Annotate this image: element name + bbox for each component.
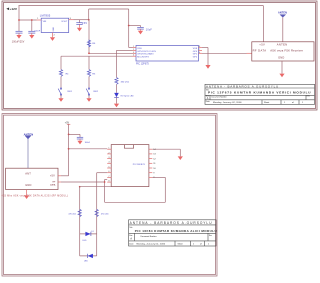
LED D4 (84, 254, 93, 263)
pin stubs PIC right (199, 47, 203, 49)
pin stubs IC2 right with numbers (149, 149, 157, 179)
capacitor C4 10uF (137, 26, 152, 32)
svg-text:SW1: SW1 (67, 91, 73, 93)
wire antenna (282, 17, 284, 41)
wire VDD to PIC (129, 47, 133, 49)
svg-text:PIC 12F675 KUMTAR KUMANDA VERI: PIC 12F675 KUMTAR KUMANDA VERICI MODULU (208, 91, 311, 95)
title block page 1 (205, 84, 315, 104)
svg-text:7: 7 (109, 176, 110, 178)
svg-text:330 ohm: 330 ohm (121, 81, 130, 83)
svg-text:RF DATA: RF DATA (253, 49, 267, 53)
svg-text:LED: LED (84, 261, 88, 263)
pin stubs PIC left (133, 47, 137, 49)
wire VSS2 to ground (152, 149, 180, 156)
wire antenna 2 (27, 139, 29, 168)
svg-text:Date:: Date: (206, 100, 211, 103)
page 1 inner border frame (4, 3, 316, 109)
resistor R3 330ohm (115, 78, 118, 85)
capacitor C3 output (76, 20, 82, 28)
node junction vdd (68, 148, 70, 150)
wire data stub to pin (105, 179, 108, 181)
wire bottom run (105, 201, 166, 203)
svg-text:PIC16F876: PIC16F876 (133, 164, 146, 166)
svg-text:VIN: VIN (43, 21, 47, 23)
svg-text:VOUT: VOUT (61, 21, 68, 23)
wire under IC bottom (80, 186, 112, 188)
ground under SW1 (58, 98, 63, 102)
resistor R1 rail left (68, 209, 81, 216)
svg-text:GND: GND (25, 183, 31, 187)
svg-text:GND: GND (53, 27, 55, 32)
ground under receiver 2 (24, 195, 29, 199)
svg-text:5: 5 (109, 166, 110, 168)
LED rail right (96, 173, 98, 256)
wire +5V output (74, 19, 89, 21)
svg-text:DATA: DATA (50, 183, 56, 186)
svg-text:PIC 12F675: PIC 12F675 (136, 63, 149, 66)
LED D3 (83, 231, 94, 242)
node junction decoupling (128, 25, 130, 27)
receiver module U5 (6, 168, 58, 189)
svg-text:100uF/25V: 100uF/25V (12, 42, 25, 44)
pin 3 regulator (69, 19, 74, 21)
wire data to receiver (202, 52, 247, 54)
ground under VSS (205, 65, 210, 69)
svg-text:LM7805: LM7805 (40, 14, 51, 18)
power symbol +5V page2 (65, 121, 71, 124)
node junction R6 (88, 52, 90, 54)
LED rail left (79, 187, 81, 256)
wire data riser (104, 180, 106, 203)
svg-text:PIC 16F84 KUMTAR KUMANDA ALICI: PIC 16F84 KUMTAR KUMANDA ALICI MODULU (135, 229, 217, 233)
svg-text:3: 3 (109, 157, 110, 159)
capacitor C2 100uF input (12, 31, 25, 43)
wire to decoupling cap (129, 25, 141, 27)
svg-text:VDD: VDD (137, 48, 142, 50)
svg-text:4: 4 (133, 55, 134, 57)
ground VSS2 (178, 156, 183, 160)
svg-text:Document Number: Document Number (212, 96, 227, 99)
svg-text:ANTENA - BARBAROS A.GURSOYLU: ANTENA - BARBAROS A.GURSOYLU (130, 221, 213, 225)
svg-text:GND: GND (278, 56, 284, 60)
ground under C2 (16, 35, 21, 39)
wire VDD to IC2 (69, 148, 108, 150)
svg-text:8: 8 (109, 181, 110, 183)
pin stub receiver +5V (58, 175, 61, 177)
wire regulator input (19, 19, 37, 21)
svg-text:1: 1 (37, 18, 38, 20)
svg-text:100nF: 100nF (85, 142, 91, 144)
antenna ANT1 (278, 11, 287, 17)
svg-text:Rev: Rev (307, 96, 310, 98)
svg-text:Monday, January 02, 2006: Monday, January 02, 2006 (213, 101, 242, 104)
svg-text:6: 6 (199, 52, 200, 54)
pin 2 regulator gnd (52, 33, 54, 38)
wire pin8 out (152, 176, 165, 178)
wire rail drop to receiver module (262, 6, 264, 42)
resistor R6 pullup (87, 20, 96, 54)
wire rail right top (97, 172, 108, 174)
wire PIC GP1 row (89, 52, 133, 54)
wire PIC GP2 row (61, 55, 133, 57)
svg-text:Size: Size (129, 235, 132, 237)
wire +5V top rail (89, 8, 129, 10)
svg-text:Date:: Date: (129, 242, 134, 245)
ground under regulator (50, 37, 55, 41)
regulator U1 LM7805 (40, 14, 69, 33)
pin stubs IC2 left (107, 149, 111, 182)
wire +5V riser (88, 9, 90, 20)
pin 1 regulator (37, 19, 42, 21)
wire rail drop to regulator input (18, 6, 20, 32)
svg-text:ANTEN: ANTEN (277, 43, 288, 47)
switch SW1 (60, 88, 61, 89)
svg-text:ANTENA - BARBAROS A.GURSOYLU: ANTENA - BARBAROS A.GURSOYLU (206, 84, 279, 88)
svg-text:GP2: GP2 (193, 57, 198, 59)
wire LED1 row (80, 233, 97, 235)
branch LED D1 (114, 50, 134, 103)
svg-text:Sheet: Sheet (264, 101, 270, 104)
wire LED2 row (80, 255, 97, 257)
svg-text:GP5/OSC1/CLKIN: GP5/OSC1/CLKIN (137, 51, 156, 53)
wire +12V rail (19, 5, 264, 7)
svg-text:8: 8 (199, 46, 200, 48)
svg-text:433 Mhz ASK veya FSK DATA ALIC: 433 Mhz ASK veya FSK DATA ALICISI (RF MO… (2, 194, 69, 197)
wire RF DATA (61, 181, 105, 183)
svg-text:Sheet: Sheet (178, 243, 184, 246)
resistor R4 (59, 70, 62, 77)
ground under C4 (138, 31, 143, 35)
node +5V junction (88, 19, 90, 21)
wire VSS to ground (202, 48, 208, 66)
wire receiver gnd 2 (26, 190, 28, 196)
antenna ANT2 (24, 132, 34, 139)
resistor R2 rail right (95, 209, 109, 216)
svg-text:10uF: 10uF (146, 28, 153, 31)
svg-text:GP4/OSC2/AN3: GP4/OSC2/AN3 (137, 53, 154, 56)
node junction cap (68, 134, 70, 136)
svg-text:2: 2 (133, 49, 134, 51)
svg-text:1: 1 (109, 148, 110, 150)
svg-text:Monday, January 02, 2006: Monday, January 02, 2006 (137, 243, 166, 246)
wire receiver gnd (281, 61, 283, 74)
svg-text:470 ohm: 470 ohm (68, 214, 76, 216)
svg-text:+5V: +5V (50, 174, 55, 177)
wire VDD drop (128, 9, 130, 48)
resistor R5 (87, 70, 90, 77)
switch SW2 (88, 88, 89, 89)
node junction at C1 (31, 19, 33, 21)
svg-text:VSS: VSS (193, 48, 198, 50)
svg-text:GP1: GP1 (193, 54, 198, 56)
capacitor C1 100nF (28, 30, 41, 35)
wire +5V drop (68, 124, 70, 176)
branch SW1 (58, 56, 73, 98)
svg-text:6: 6 (109, 171, 110, 173)
title block page 2 (129, 220, 217, 246)
svg-text:D1: D1 (91, 231, 93, 233)
PIC U2 12F675 (136, 46, 199, 66)
svg-text:LED: LED (83, 240, 87, 242)
page 2 inner border frame (4, 115, 216, 274)
ground under C1 (29, 35, 34, 39)
svg-text:ASK veya FSK Receiver: ASK veya FSK Receiver (270, 49, 303, 53)
svg-text:2: 2 (54, 34, 55, 36)
svg-text:4: 4 (109, 162, 110, 164)
wire cap C1 drop (31, 20, 33, 31)
ground under receiver (279, 74, 284, 78)
svg-text:SW2: SW2 (93, 91, 99, 93)
svg-text:5V Tip De LED: 5V Tip De LED (120, 95, 134, 97)
wire to cap C5 (69, 133, 80, 135)
svg-text:3: 3 (133, 52, 134, 54)
node junction at C2 (18, 19, 20, 21)
branch SW2 (86, 56, 99, 98)
svg-text:7: 7 (199, 49, 200, 51)
ground under C3 (77, 28, 82, 32)
capacitor C5 (77, 134, 91, 144)
svg-text:2: 2 (109, 152, 110, 154)
IC U4 PIC16F84A DIP (111, 145, 149, 187)
svg-text:3: 3 (70, 18, 71, 20)
wire +5V to rail (61, 175, 69, 177)
svg-text:470 ohm: 470 ohm (101, 214, 109, 216)
LED D1 (114, 93, 119, 97)
svg-text:Document Number: Document Number (141, 235, 157, 238)
ground under LED D1 (114, 104, 119, 108)
pin stub receiver data2 (58, 181, 61, 183)
page 2 outer border frame (2, 114, 217, 276)
wire LED row (117, 49, 133, 51)
receiver module U3 (252, 42, 314, 61)
svg-text:Rev: Rev (209, 235, 212, 237)
wire pin8 drop (164, 177, 166, 202)
svg-text:ANT: ANT (25, 172, 31, 176)
svg-text:+5V: +5V (259, 43, 265, 47)
ground under C5 (77, 141, 82, 145)
svg-text:GP0: GP0 (193, 51, 198, 53)
svg-text:Title: Title (129, 226, 132, 229)
ground under SW2 (86, 98, 91, 102)
pin stub receiver data (247, 52, 252, 54)
svg-text:MCLR/GP3: MCLR/GP3 (137, 57, 149, 59)
svg-text:ANTEN: ANTEN (278, 11, 287, 14)
page 1 outer border frame (2, 1, 317, 110)
svg-text:1: 1 (133, 46, 134, 48)
svg-text:100nF: 100nF (34, 30, 40, 32)
svg-text:+12V: +12V (10, 7, 18, 11)
power symbol +12V (6, 7, 18, 11)
